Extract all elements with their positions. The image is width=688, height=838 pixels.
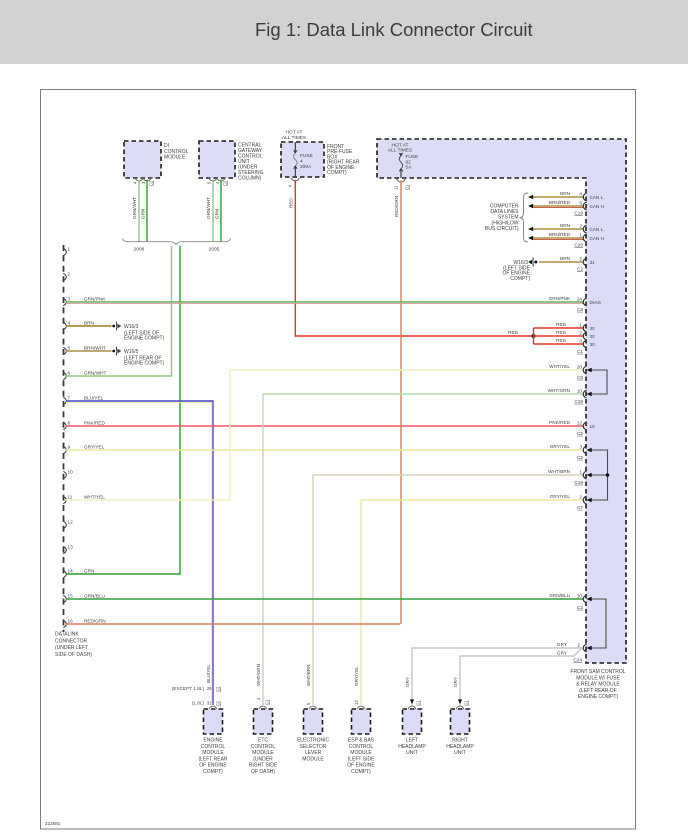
svg-text:PNK/RED: PNK/RED xyxy=(84,421,105,426)
svg-text:CONTROL: CONTROL xyxy=(251,744,276,750)
selector pin label xyxy=(306,702,311,705)
svg-text:(EXCEPT 1.8L): (EXCEPT 1.8L) xyxy=(172,686,205,691)
wire label WHT/GRN vertical xyxy=(256,664,261,686)
fuse value label FUSE 62 5A xyxy=(406,154,419,171)
svg-text:MODULE: MODULE xyxy=(350,750,372,756)
svg-text:GRN/PNK: GRN/PNK xyxy=(84,297,106,302)
svg-text:CONTROL: CONTROL xyxy=(349,744,374,750)
svg-text:4: 4 xyxy=(300,159,303,165)
svg-text:9: 9 xyxy=(68,445,71,450)
wire RED pin 3 circuit 30 xyxy=(534,338,596,348)
svg-text:12: 12 xyxy=(577,420,583,425)
svg-text:C19: C19 xyxy=(574,211,583,216)
wire BRN CAN L pin 4 xyxy=(528,191,604,201)
ECM pin row 1.8L xyxy=(192,700,221,706)
terminal arcs DI pins xyxy=(135,178,152,181)
ground W16/3 right side xyxy=(528,258,537,267)
svg-text:1: 1 xyxy=(579,322,582,327)
terminal arc + arrow left headlamp xyxy=(408,699,421,709)
wire GRY left headlamp xyxy=(412,644,586,705)
DLC pin 16 xyxy=(63,619,105,628)
pin labels DI xyxy=(133,180,154,186)
wire GRN/PNK pin3 to DIAG xyxy=(66,298,586,306)
svg-text:DATALINK: DATALINK xyxy=(55,632,79,638)
svg-text:C20: C20 xyxy=(574,243,583,248)
svg-text:4: 4 xyxy=(68,321,71,326)
svg-text:RED: RED xyxy=(556,330,567,335)
DLC pin 13 xyxy=(63,545,73,554)
svg-text:200A: 200A xyxy=(300,164,312,170)
svg-text:29: 29 xyxy=(207,686,212,691)
svg-text:ALL TIMES: ALL TIMES xyxy=(388,148,412,154)
label computer data lines system xyxy=(485,204,519,232)
labels GRY pin 2 C24 xyxy=(557,642,582,663)
svg-text:CONTROL: CONTROL xyxy=(201,744,226,750)
svg-text:GRN/PNK: GRN/PNK xyxy=(549,296,571,301)
svg-text:5A: 5A xyxy=(406,165,413,171)
svg-text:UNIT: UNIT xyxy=(406,750,418,756)
module ESP and BAS control module xyxy=(352,709,371,734)
ground W16/5 symbol xyxy=(112,347,121,356)
svg-text:RED/GRN: RED/GRN xyxy=(394,196,399,217)
svg-text:C2: C2 xyxy=(216,686,221,692)
svg-text:DIAG: DIAG xyxy=(590,300,602,305)
svg-text:2: 2 xyxy=(579,223,582,228)
svg-text:2: 2 xyxy=(579,494,582,499)
svg-text:31: 31 xyxy=(207,701,212,706)
year brace 2006 / 2005 xyxy=(123,238,231,244)
ground W16/3 left symbol xyxy=(112,322,121,331)
svg-text:WHT/BRN: WHT/BRN xyxy=(548,469,570,474)
svg-text:GRN: GRN xyxy=(215,209,220,219)
terminal arc ETC xyxy=(259,706,267,709)
wire label BLU/YEL vertical xyxy=(206,664,211,683)
wire GRN from DI xyxy=(146,180,148,242)
DLC pin 9 xyxy=(63,445,104,454)
title bar xyxy=(0,0,688,64)
svg-text:C1: C1 xyxy=(405,184,410,190)
svg-text:COMPT): COMPT) xyxy=(351,769,371,775)
svg-text:RED/GRN: RED/GRN xyxy=(84,619,106,624)
svg-text:WHT/BRN: WHT/BRN xyxy=(306,665,311,686)
svg-text:& RELAY MODULE: & RELAY MODULE xyxy=(576,682,620,688)
wire label RED vertical xyxy=(289,198,294,208)
label ETC control module xyxy=(249,738,278,776)
module front SAM control module w/ fuse & relay module xyxy=(377,139,626,663)
svg-text:5: 5 xyxy=(68,346,71,351)
label right headlamp unit xyxy=(446,738,474,757)
DLC pin 4 xyxy=(63,321,94,330)
svg-text:ELECTRONIC: ELECTRONIC xyxy=(297,738,330,744)
DLC pin 8 xyxy=(63,421,105,430)
wire BRN/RED CAN H pin 1 xyxy=(528,232,604,242)
svg-text:30: 30 xyxy=(590,334,596,339)
svg-text:10: 10 xyxy=(68,470,74,475)
svg-text:C2: C2 xyxy=(577,455,583,460)
svg-text:GRY/YEL: GRY/YEL xyxy=(550,494,571,499)
svg-text:10: 10 xyxy=(577,593,583,598)
svg-text:3: 3 xyxy=(579,338,582,343)
svg-text:CAN H: CAN H xyxy=(590,204,605,209)
internal link GRY/YEL WHT/BRN GRY/YEL xyxy=(587,448,610,502)
label HOT AT ALL TIMES pre-fuse xyxy=(282,130,306,141)
ETC pin labels xyxy=(256,697,270,705)
svg-text:RIGHT SIDE: RIGHT SIDE xyxy=(249,763,278,769)
DLC pin 6 xyxy=(63,371,106,380)
module electronic selector lever module xyxy=(304,709,323,734)
module left headlamp unit xyxy=(403,709,422,734)
svg-text:222881: 222881 xyxy=(45,821,61,826)
svg-text:BRN: BRN xyxy=(560,256,570,261)
wire label GRY right vertical xyxy=(453,677,458,687)
svg-text:2: 2 xyxy=(577,642,580,647)
label left headlamp unit xyxy=(398,738,426,757)
DLC pin 2 xyxy=(63,272,70,281)
svg-text:20: 20 xyxy=(577,364,583,369)
label datalink connector xyxy=(55,632,92,658)
svg-text:OF ENGINE: OF ENGINE xyxy=(347,763,375,769)
DLC pin 10 xyxy=(63,470,73,479)
svg-text:Fig 1: Data Link Connector Cir: Fig 1: Data Link Connector Circuit xyxy=(255,19,533,40)
connector C19 xyxy=(574,211,583,216)
label GRY/YEL right pin 2 xyxy=(550,494,584,510)
svg-text:C19: C19 xyxy=(574,480,583,485)
svg-text:C19: C19 xyxy=(574,399,583,404)
label W16/5 xyxy=(124,349,165,367)
svg-text:3: 3 xyxy=(68,297,71,302)
DLC pin 5 xyxy=(63,346,106,355)
svg-text:WHT/GRN: WHT/GRN xyxy=(548,388,570,393)
svg-text:BRN/RED: BRN/RED xyxy=(549,200,571,205)
label front SAM control module xyxy=(570,669,625,700)
wire PNK/RED pin8 to SAM xyxy=(66,422,586,430)
svg-text:WHT/GRN: WHT/GRN xyxy=(256,664,261,686)
wire BRN pin4 to ground W16/3 left xyxy=(66,325,112,327)
terminal arc selector xyxy=(309,706,317,709)
svg-text:WHT/YEL: WHT/YEL xyxy=(84,495,105,500)
svg-text:CAN L: CAN L xyxy=(590,195,604,200)
svg-text:OF ENGINE: OF ENGINE xyxy=(199,763,227,769)
svg-text:ETC: ETC xyxy=(258,738,268,744)
svg-text:LEFT: LEFT xyxy=(406,738,418,744)
label front pre-fuse box xyxy=(327,144,360,176)
svg-text:C8: C8 xyxy=(577,307,583,312)
svg-text:FRONT SAM CONTROL: FRONT SAM CONTROL xyxy=(570,669,625,675)
label W16/3 right xyxy=(502,260,530,282)
svg-text:(UNDER: (UNDER xyxy=(253,756,273,762)
wire RED pin 2 circuit 30 xyxy=(534,330,596,340)
svg-text:GRN: GRN xyxy=(84,569,94,574)
svg-text:GRY/YEL: GRY/YEL xyxy=(354,666,359,686)
label 2006 xyxy=(134,247,145,253)
label WHT/BRN right pin 1 xyxy=(548,469,583,485)
svg-text:GRN/WHT: GRN/WHT xyxy=(132,197,137,219)
svg-text:W16/5: W16/5 xyxy=(124,349,139,355)
svg-text:C1: C1 xyxy=(577,349,583,354)
svg-text:COMPT): COMPT) xyxy=(510,276,530,282)
wire WHT/GRN from SAM to ETC xyxy=(263,390,586,705)
terminal arc SAM fuse bottom pin 11 xyxy=(394,179,410,190)
wire WHT/BRN from SAM to selector module xyxy=(313,471,586,705)
diagram frame xyxy=(41,90,636,830)
terminal arc + arrow right headlamp xyxy=(456,699,469,709)
wire label GRY left vertical xyxy=(405,677,410,687)
label WHT/YEL right pin 20 xyxy=(549,364,583,380)
svg-text:2: 2 xyxy=(68,272,71,277)
wire label GRY/YEL vertical xyxy=(354,666,359,686)
wire RED branch bracket xyxy=(533,328,535,344)
module central gateway control unit xyxy=(199,141,235,178)
svg-text:24: 24 xyxy=(577,296,583,301)
svg-text:MODULE: MODULE xyxy=(164,155,186,161)
wire label GRN DI xyxy=(141,209,146,219)
svg-text:62: 62 xyxy=(406,159,412,165)
svg-text:30: 30 xyxy=(590,326,596,331)
wire BLU/YEL pin7 to ECM xyxy=(66,401,213,705)
terminal arc pre-fuse bottom pin 4 xyxy=(288,178,300,187)
computer data lines system brace xyxy=(520,193,529,242)
connector C2 of pin 5 xyxy=(577,267,583,272)
wire GRN/BLU pin15 to SAM xyxy=(66,595,586,603)
wire GRY right headlamp xyxy=(460,649,581,705)
wire RED pin 1 circuit 30 xyxy=(534,322,596,332)
svg-text:ESP & BAS: ESP & BAS xyxy=(348,738,375,744)
svg-text:14: 14 xyxy=(68,569,74,574)
svg-text:COMPT): COMPT) xyxy=(327,170,347,176)
terminal arc ECM xyxy=(209,706,217,709)
svg-text:OF DASH): OF DASH) xyxy=(251,769,275,775)
svg-text:C2: C2 xyxy=(577,431,583,436)
DLC pin 15 xyxy=(63,594,105,603)
wire GRY/YEL from SAM to ESP BAS module xyxy=(361,496,586,705)
terminal arc ESP xyxy=(357,706,365,709)
DLC pin 14 xyxy=(63,569,94,578)
wire WHT/YEL pin11 up and to SAM xyxy=(66,366,586,500)
svg-text:RED: RED xyxy=(508,330,519,335)
svg-text:GRY: GRY xyxy=(453,677,458,687)
label WHT/GRN right pin 10 xyxy=(548,388,584,404)
DLC pin 3 xyxy=(63,297,106,306)
svg-text:COLUMN): COLUMN) xyxy=(238,176,262,182)
junction RED splice xyxy=(532,334,536,338)
label DI control module xyxy=(164,143,189,161)
svg-text:RED: RED xyxy=(556,338,567,343)
svg-text:15: 15 xyxy=(68,594,74,599)
label 2005 xyxy=(209,247,220,253)
svg-text:5: 5 xyxy=(579,200,582,205)
svg-text:C2: C2 xyxy=(577,267,583,272)
svg-text:BRN: BRN xyxy=(560,191,570,196)
wire label GRN/WHT DI xyxy=(132,197,137,219)
svg-text:GRN/WHT: GRN/WHT xyxy=(84,371,107,376)
module right headlamp unit xyxy=(451,709,470,734)
terminal arcs central gateway pins xyxy=(209,178,226,181)
svg-text:BRN/RED: BRN/RED xyxy=(549,232,571,237)
svg-text:16: 16 xyxy=(68,619,74,624)
svg-text:8: 8 xyxy=(68,421,71,426)
wire GRN/WHT from DI xyxy=(138,180,140,242)
svg-text:C1: C1 xyxy=(265,699,270,705)
svg-text:ENGINE COMPT): ENGINE COMPT) xyxy=(124,336,165,342)
svg-text:GRY/YEL: GRY/YEL xyxy=(84,445,105,450)
svg-text:MODULE: MODULE xyxy=(202,750,224,756)
svg-text:UNIT: UNIT xyxy=(454,750,466,756)
wire GRN below brace xyxy=(179,246,181,574)
label GRN/BLU right pin 10 xyxy=(549,593,583,610)
svg-text:ALL TIMES: ALL TIMES xyxy=(282,135,306,141)
svg-text:HOT AT: HOT AT xyxy=(392,142,409,148)
wire BRN/WHT pin5 to ground W16/5 xyxy=(66,350,112,352)
svg-text:C2: C2 xyxy=(216,700,221,706)
ESP pin label xyxy=(354,700,359,705)
DLC pin 7 xyxy=(63,396,103,405)
label central gateway xyxy=(238,143,264,182)
svg-text:GRY/YEL: GRY/YEL xyxy=(550,444,571,449)
DLC pin 1 xyxy=(63,247,70,256)
internal link GRN/BLU to GRY xyxy=(587,597,607,650)
svg-text:WHT/YEL: WHT/YEL xyxy=(549,364,570,369)
svg-text:GRY: GRY xyxy=(405,677,410,687)
wire label GRN/WHT central gateway xyxy=(206,197,211,219)
module front pre-fuse box xyxy=(281,142,324,177)
svg-text:2005: 2005 xyxy=(209,247,220,253)
label GRN/PNK right + pin 24 DIAG xyxy=(549,296,602,312)
svg-text:BRN/WHT: BRN/WHT xyxy=(84,346,106,351)
svg-text:RED: RED xyxy=(556,322,567,327)
svg-text:ENGINE COMPT): ENGINE COMPT) xyxy=(578,694,619,700)
svg-text:COMPT): COMPT) xyxy=(203,769,223,775)
svg-text:BRN: BRN xyxy=(560,223,570,228)
DLC pin 11 xyxy=(63,495,105,504)
svg-text:C1: C1 xyxy=(416,700,421,706)
svg-text:(LEFT SIDE: (LEFT SIDE xyxy=(348,756,376,762)
svg-text:30: 30 xyxy=(590,342,596,347)
data link connector dashed line xyxy=(63,245,65,632)
svg-text:GRN/WHT: GRN/WHT xyxy=(206,197,211,219)
wire BRN CAN L pin 2 xyxy=(528,223,604,233)
svg-text:1: 1 xyxy=(579,469,582,474)
svg-text:(UNDER LEFT: (UNDER LEFT xyxy=(55,645,88,651)
connector C1 xyxy=(577,349,583,354)
svg-text:15: 15 xyxy=(590,424,596,429)
wire RED/GRN pin16 horizontal xyxy=(66,623,400,625)
svg-text:ENGINE: ENGINE xyxy=(203,738,223,744)
wire GRN/WHT from central gateway xyxy=(212,180,214,242)
svg-text:(1.8L): (1.8L) xyxy=(192,701,205,706)
wire GRN/WHT pin6 horizontal xyxy=(66,375,172,377)
svg-text:1: 1 xyxy=(68,247,71,252)
svg-text:(LEFT REAR OF: (LEFT REAR OF xyxy=(579,688,616,694)
wire label WHT/BRN vertical xyxy=(306,665,311,686)
svg-text:C2: C2 xyxy=(223,180,228,186)
svg-text:C7: C7 xyxy=(577,505,583,510)
svg-text:C2: C2 xyxy=(149,180,154,186)
fuse FUSE 4 200A symbol xyxy=(294,142,298,177)
label GRY/YEL right pin 3 xyxy=(550,444,584,460)
wire GRN/WHT below brace xyxy=(171,246,173,376)
svg-text:PNK/RED: PNK/RED xyxy=(549,420,570,425)
DLC pin 12 xyxy=(63,520,73,529)
wire RED/GRN from SAM fuse down xyxy=(400,181,402,625)
svg-text:BRN: BRN xyxy=(84,321,94,326)
label PNK/RED right pin 12 circuit 15 xyxy=(549,420,595,436)
pin labels central gateway xyxy=(207,180,228,186)
svg-text:7: 7 xyxy=(68,396,71,401)
svg-text:GRY: GRY xyxy=(557,651,568,656)
svg-text:2: 2 xyxy=(579,330,582,335)
svg-text:BLU/YEL: BLU/YEL xyxy=(206,664,211,683)
svg-text:CAN L: CAN L xyxy=(590,227,604,232)
svg-text:FUSE: FUSE xyxy=(406,154,419,160)
module ETC control module xyxy=(254,709,273,734)
label HOT AT ALL TIMES SAM fuse xyxy=(388,142,412,153)
svg-text:12: 12 xyxy=(68,520,74,525)
fuse FUSE 62 5A symbol xyxy=(399,153,402,178)
connector C20 xyxy=(574,243,583,248)
svg-text:ENGINE COMPT): ENGINE COMPT) xyxy=(124,361,165,367)
svg-text:6: 6 xyxy=(68,371,71,376)
svg-text:(LEFT REAR: (LEFT REAR xyxy=(198,756,227,762)
label RED before junction xyxy=(508,330,519,335)
svg-text:FUSE: FUSE xyxy=(300,153,313,159)
svg-text:HEADLAMP: HEADLAMP xyxy=(446,744,474,750)
svg-text:W16/3: W16/3 xyxy=(124,324,139,330)
wire RED from pre-fuse to junction xyxy=(295,180,533,336)
svg-text:GRY: GRY xyxy=(557,642,568,647)
svg-text:11: 11 xyxy=(68,495,73,500)
svg-text:MODULE: MODULE xyxy=(302,756,324,762)
internal link WHT/YEL to WHT/GRN xyxy=(587,368,608,396)
svg-text:SELECTOR: SELECTOR xyxy=(300,744,327,750)
svg-text:3: 3 xyxy=(579,444,582,449)
svg-text:4: 4 xyxy=(579,191,582,196)
svg-text:HEADLAMP: HEADLAMP xyxy=(398,744,426,750)
svg-text:GRN/BLU: GRN/BLU xyxy=(549,593,570,598)
svg-text:MODULE W/ FUSE: MODULE W/ FUSE xyxy=(576,675,620,681)
wire BRN to W16/3 pin 5 xyxy=(539,256,595,266)
svg-text:1: 1 xyxy=(579,232,582,237)
label W16/3 left xyxy=(124,324,165,342)
wire label GRN central gateway xyxy=(215,209,220,219)
module engine control module xyxy=(204,709,223,734)
svg-text:HOT AT: HOT AT xyxy=(286,130,303,136)
svg-text:LEVER: LEVER xyxy=(305,750,322,756)
svg-text:31: 31 xyxy=(590,260,596,265)
svg-text:13: 13 xyxy=(354,700,359,705)
wire BRN/RED CAN H pin 5 xyxy=(528,200,604,210)
svg-text:BLU/YEL: BLU/YEL xyxy=(84,396,104,401)
fuse value label FUSE 4 200A xyxy=(300,153,313,170)
svg-text:CAN H: CAN H xyxy=(590,236,605,241)
svg-text:5: 5 xyxy=(579,256,582,261)
svg-text:C8: C8 xyxy=(577,375,583,380)
module DI control module xyxy=(124,141,161,178)
svg-text:GRN: GRN xyxy=(141,209,146,219)
svg-text:RED: RED xyxy=(289,198,294,208)
svg-text:GRN/BLU: GRN/BLU xyxy=(84,594,105,599)
wire GRN pin14 horizontal xyxy=(66,573,181,575)
svg-text:2006: 2006 xyxy=(134,247,145,253)
wire GRY/YEL pin9 to SAM xyxy=(66,446,586,454)
svg-text:C24: C24 xyxy=(573,658,582,663)
svg-text:11: 11 xyxy=(394,185,399,190)
ECM pin row except 1.8L xyxy=(172,686,221,692)
svg-text:10: 10 xyxy=(577,388,583,393)
svg-text:BUS CIRCUIT): BUS CIRCUIT) xyxy=(485,226,519,232)
label electronic selector lever module xyxy=(297,738,330,763)
svg-text:MODULE: MODULE xyxy=(252,750,274,756)
label engine control module xyxy=(198,738,227,776)
